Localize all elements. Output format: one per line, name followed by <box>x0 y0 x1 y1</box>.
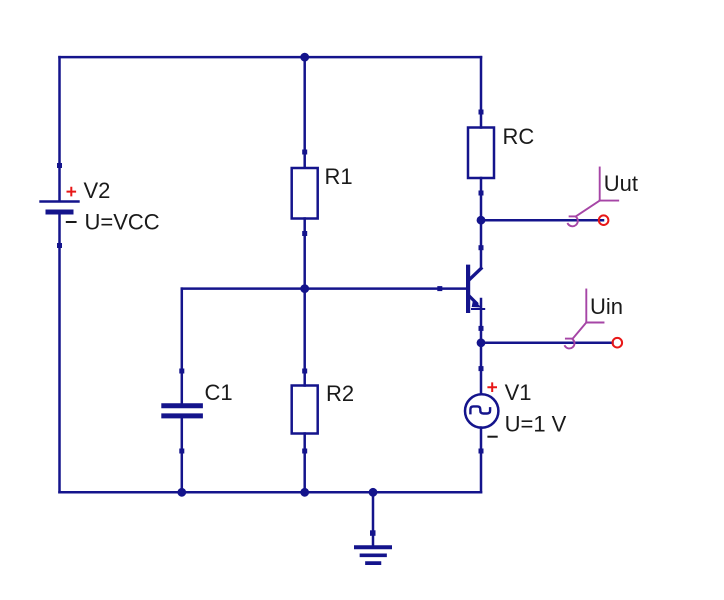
junction bottom ground <box>369 488 378 497</box>
plus sign V1 <box>488 383 496 391</box>
wire top rail <box>60 56 482 59</box>
wire C1 top <box>181 289 184 403</box>
svg-text:V2: V2 <box>84 178 111 203</box>
pin square ground <box>370 530 376 536</box>
wire emitter vertical <box>480 299 483 394</box>
probe Uut <box>568 168 618 227</box>
transistor Q1 <box>468 267 484 311</box>
wire R1 top <box>303 57 306 168</box>
pin square C1 bottom <box>179 449 184 454</box>
pin square RC top <box>479 110 484 115</box>
pin square V1 bottom <box>479 449 484 454</box>
resistor R1 <box>292 168 318 219</box>
pin square collector <box>479 245 484 250</box>
svg-text:Uin: Uin <box>590 294 623 319</box>
pin square emitter <box>479 326 484 331</box>
terminal circle Uin <box>613 338 623 348</box>
svg-text:V1: V1 <box>505 380 532 405</box>
wire Uin tap <box>481 342 613 345</box>
wire bottom rail <box>60 491 482 494</box>
pin square C1 top <box>179 369 184 374</box>
junction top rail R1 <box>300 53 309 62</box>
battery V2 <box>41 202 79 213</box>
wire left rail upper (V2 top) <box>58 57 61 201</box>
source V1 <box>465 394 498 427</box>
junction collector node <box>477 216 486 225</box>
svg-text:C1: C1 <box>205 380 233 405</box>
pin square RC bottom <box>479 191 484 196</box>
minus sign V2 <box>67 221 76 223</box>
svg-text:Uut: Uut <box>604 171 638 196</box>
wire R2 bottom <box>303 434 306 493</box>
pin square R2 top <box>302 369 307 374</box>
resistor R2 <box>292 386 318 434</box>
wire V1 bottom <box>480 428 483 493</box>
wire left rail lower (V2 bottom) <box>58 213 61 492</box>
pin square R2 bottom <box>302 449 307 454</box>
pin square V1 top <box>479 366 484 371</box>
pin square R1 bottom <box>302 231 307 236</box>
wire ground stem <box>372 492 375 545</box>
svg-text:R2: R2 <box>326 381 354 406</box>
junction emitter node <box>477 338 486 347</box>
wire RC top <box>480 57 483 127</box>
capacitor C1 <box>164 406 201 416</box>
wire collector vertical <box>480 220 483 268</box>
wire C1 bottom <box>181 419 184 493</box>
svg-text:RC: RC <box>503 124 535 149</box>
pin square V2 bottom <box>57 243 62 248</box>
minus sign V1 <box>488 436 496 438</box>
terminal circle Uut <box>599 215 609 225</box>
junction bottom C1 <box>177 488 186 497</box>
probe Uin <box>565 290 604 349</box>
ground <box>356 547 390 563</box>
junction base node <box>300 284 309 293</box>
svg-text:R1: R1 <box>325 164 353 189</box>
svg-text:U=1 V: U=1 V <box>505 412 567 437</box>
pin square base <box>437 286 442 291</box>
wire base <box>182 287 466 290</box>
pin square R1 top <box>302 150 307 155</box>
plus sign V2 <box>68 188 76 196</box>
wire RC bottom to collector node <box>480 178 483 220</box>
wire R1 bottom to R2 top <box>303 219 306 386</box>
resistor RC <box>468 128 494 179</box>
wire Uut tap <box>481 219 603 222</box>
junction bottom R2 <box>300 488 309 497</box>
svg-text:U=VCC: U=VCC <box>85 209 160 234</box>
pin square V2 top <box>57 163 62 168</box>
